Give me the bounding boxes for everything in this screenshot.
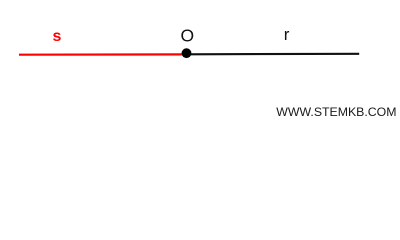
svg-text:r: r [284,25,290,44]
svg-text:O: O [180,26,194,46]
ray r (black half-line) [187,53,359,56]
point O (origin dot) [182,48,192,58]
ray s (red half-line) [19,53,187,55]
svg-text:WWW.STEMKB.COM: WWW.STEMKB.COM [276,105,396,119]
svg-text:s: s [53,28,62,45]
